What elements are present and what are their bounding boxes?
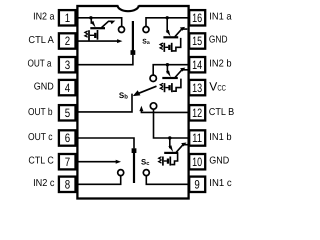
svg-text:CTL A: CTL A bbox=[28, 35, 54, 46]
svg-text:7: 7 bbox=[65, 155, 71, 169]
svg-text:IN2 c: IN2 c bbox=[33, 178, 54, 189]
wire pin7 CTL C with actuator arrow bbox=[78, 160, 121, 164]
diode D2 anode bar bbox=[163, 43, 165, 52]
diode D4 anode bar bbox=[162, 157, 164, 166]
pin box 4 bbox=[59, 80, 76, 95]
svg-text:11: 11 bbox=[192, 131, 202, 145]
svg-text:IN2 b: IN2 b bbox=[209, 59, 232, 70]
wire pin14 IN2b to Sb upper contact bbox=[153, 65, 188, 75]
svg-text:OUT c: OUT c bbox=[28, 132, 53, 143]
resistor R3 chevrons bbox=[160, 83, 163, 89]
svg-text:CTL C: CTL C bbox=[28, 156, 53, 167]
pin box 16 bbox=[189, 10, 205, 25]
wire pin6 OUT c to Sc pole bbox=[78, 138, 134, 148]
svg-text:CTL B: CTL B bbox=[209, 107, 235, 118]
pin box 5 bbox=[59, 105, 76, 120]
svg-text:10: 10 bbox=[192, 155, 202, 169]
wire pin8 IN2c to Sc left contact bbox=[78, 176, 121, 185]
pin box 7 bbox=[59, 154, 76, 169]
svg-text:12: 12 bbox=[192, 106, 202, 120]
svg-text:14: 14 bbox=[192, 58, 202, 72]
svg-text:9: 9 bbox=[194, 178, 200, 192]
pin box 12 bbox=[189, 105, 205, 120]
resistor R4 chevrons bbox=[159, 157, 162, 163]
svg-text:15: 15 bbox=[192, 34, 202, 48]
svg-text:16: 16 bbox=[192, 11, 202, 25]
svg-text:3: 3 bbox=[65, 58, 71, 72]
diode D1 body bbox=[90, 33, 97, 38]
pin box 13 bbox=[189, 80, 205, 95]
switch Sc pole blade bbox=[133, 153, 135, 183]
resistor R2 chevrons bbox=[160, 43, 163, 49]
transistor Q1 base bar bbox=[90, 27, 105, 29]
node junction dot on pin14 wire bbox=[166, 63, 169, 66]
pin box 14 bbox=[189, 57, 205, 72]
switch Sb lower contact circle bbox=[150, 103, 156, 109]
wire Sb lower contact to pin11 IN1b bbox=[154, 109, 189, 138]
svg-text:1: 1 bbox=[65, 11, 71, 25]
svg-text:Sa: Sa bbox=[142, 38, 150, 46]
svg-text:6: 6 bbox=[65, 131, 71, 145]
node pole a junction square bbox=[131, 50, 136, 55]
transistor Q2 collector with arrow bbox=[175, 27, 187, 37]
wire pin5 OUT b to Sb pivot bbox=[78, 94, 132, 112]
transistor Q3 base bar bbox=[162, 77, 178, 79]
transistor Q4 base bar bbox=[164, 152, 178, 154]
switch Sb upper contact circle bbox=[150, 75, 156, 81]
transistor Q4 collector with arrow bbox=[176, 143, 187, 153]
diode D3 cathode bar bbox=[171, 83, 173, 92]
node junction dot on pin16 wire bbox=[166, 16, 169, 19]
pin box 6 bbox=[59, 130, 76, 145]
pin box 15 bbox=[189, 33, 205, 48]
switch Sa right contact circle bbox=[143, 27, 149, 33]
switch Sa pole blade bbox=[132, 21, 134, 51]
wire pin16 IN1a to Sa right contact bbox=[146, 18, 188, 27]
switch Sb blade arrow bbox=[133, 90, 141, 96]
svg-text:2: 2 bbox=[65, 34, 71, 48]
pin box 11 bbox=[189, 130, 205, 145]
transistor Q1 emitter (left driver a) bbox=[91, 18, 96, 28]
svg-text:IN2 a: IN2 a bbox=[33, 12, 55, 23]
svg-text:5: 5 bbox=[65, 106, 71, 120]
wire D2 to Q2 base staircase bbox=[173, 38, 181, 51]
svg-text:GND: GND bbox=[209, 35, 228, 46]
switch Sc left contact circle bbox=[118, 170, 124, 176]
index notch bbox=[118, 5, 138, 8]
pin box 9 bbox=[189, 177, 205, 192]
wire D4 to Q4 base staircase bbox=[171, 154, 178, 165]
pin box 3 bbox=[59, 57, 76, 72]
diode D1 cathode bar to Q1 base bbox=[97, 30, 99, 40]
diode D3 body bbox=[165, 85, 170, 90]
switch Sc right contact circle bbox=[143, 170, 149, 176]
wire pin1 IN2a to Sa left contact bbox=[78, 18, 122, 27]
diode D2 cathode bar bbox=[171, 43, 173, 52]
diode D4 body bbox=[164, 159, 169, 164]
svg-text:IN1 b: IN1 b bbox=[209, 132, 232, 143]
node pole c junction square bbox=[132, 148, 137, 153]
transistor Q1 collector with arrow bbox=[102, 21, 116, 28]
diode D2 body bbox=[165, 45, 170, 50]
wire pin2 CTL A with actuator arrow bbox=[78, 39, 122, 43]
wire pole a to OUT a pin3 bbox=[78, 55, 133, 65]
transistor Q4 emitter (driver c) bbox=[168, 138, 173, 152]
wire CTL B pin12 with actuator arrow bbox=[139, 106, 188, 113]
svg-text:4: 4 bbox=[65, 81, 71, 95]
node junction dot on pin11 wire bbox=[168, 136, 171, 139]
svg-text:OUT b: OUT b bbox=[28, 107, 53, 118]
wire D3 to Q3 base staircase bbox=[173, 79, 181, 92]
switch Sa left contact circle bbox=[119, 27, 125, 33]
switch Sb blade bbox=[136, 86, 157, 94]
pin box 8 bbox=[59, 177, 76, 192]
pin box 1 bbox=[59, 10, 76, 25]
svg-text:13: 13 bbox=[192, 81, 202, 95]
svg-text:IN1 a: IN1 a bbox=[209, 12, 232, 23]
resistor R1 chevrons (CTL A base resistor) bbox=[85, 31, 88, 37]
transistor Q3 emitter (driver b) bbox=[166, 65, 171, 77]
wire pin9 IN1c to Sc right contact bbox=[146, 176, 188, 185]
node junction dot on pin1 wire bbox=[89, 16, 92, 19]
transistor Q2 base bar bbox=[163, 36, 178, 38]
diode D4 cathode bar bbox=[169, 157, 171, 166]
svg-text:OUT a: OUT a bbox=[28, 59, 52, 70]
svg-text:IN1 c: IN1 c bbox=[209, 178, 231, 189]
transistor Q2 emitter (driver a) bbox=[166, 18, 171, 37]
svg-text:GND: GND bbox=[209, 156, 229, 167]
IC body outline bbox=[77, 6, 188, 199]
diode D3 anode bar bbox=[164, 83, 166, 92]
diode D1 anode bar (on CTL A riser) bbox=[88, 30, 90, 41]
svg-text:8: 8 bbox=[65, 178, 71, 192]
transistor Q3 collector with arrow bbox=[175, 68, 187, 78]
svg-text:GND: GND bbox=[34, 82, 54, 93]
pin box 10 bbox=[189, 154, 205, 169]
pin box 2 bbox=[59, 33, 76, 48]
